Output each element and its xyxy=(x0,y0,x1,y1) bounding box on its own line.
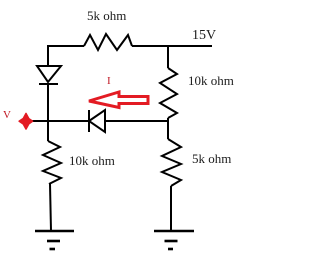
resistor R2 10k ohm (right upper vertical) xyxy=(160,68,177,118)
resistor R1 5k ohm (top horizontal) xyxy=(84,34,132,50)
label 5k ohm (top resistor) xyxy=(87,8,126,24)
resistor R4 10k ohm (left lower vertical) xyxy=(43,141,61,184)
diode D1 (vertical, pointing down) xyxy=(37,66,61,84)
current arrow I (red block arrow pointing left) xyxy=(89,92,148,108)
wire junction down to R3 xyxy=(167,121,169,139)
wire from diode D1 down to node V xyxy=(47,84,49,122)
label 5k ohm (right lower resistor) xyxy=(192,151,231,167)
ground (left) xyxy=(35,231,74,249)
resistor R3 5k ohm (right lower vertical) xyxy=(162,139,181,186)
wire R4 bottom to left ground xyxy=(50,184,51,231)
label 10k ohm (left lower resistor) xyxy=(69,153,115,169)
label I (current) xyxy=(107,75,111,87)
wire T-junction vertical from top rail xyxy=(167,45,169,68)
wire R2 bottom to middle rail junction xyxy=(167,118,169,122)
label 10k ohm (right upper resistor) xyxy=(188,73,234,89)
wire middle rail right (diode D2 to right branch) xyxy=(105,120,168,122)
node V marker (red four-point star) xyxy=(19,114,32,130)
wire R3 bottom to right ground xyxy=(170,186,172,231)
wire left vertical from top corner xyxy=(47,45,49,66)
wire middle rail left (node V to diode D2) xyxy=(31,120,89,122)
ground (right) xyxy=(154,231,194,249)
wire top rail left segment xyxy=(48,45,84,47)
label V (node voltage) xyxy=(3,109,11,121)
wire node V down to R4 xyxy=(47,121,49,141)
diode D2 (horizontal, pointing left) xyxy=(89,110,105,132)
label 15V supply xyxy=(192,28,216,44)
wire top rail right segment to 15V xyxy=(132,45,212,47)
